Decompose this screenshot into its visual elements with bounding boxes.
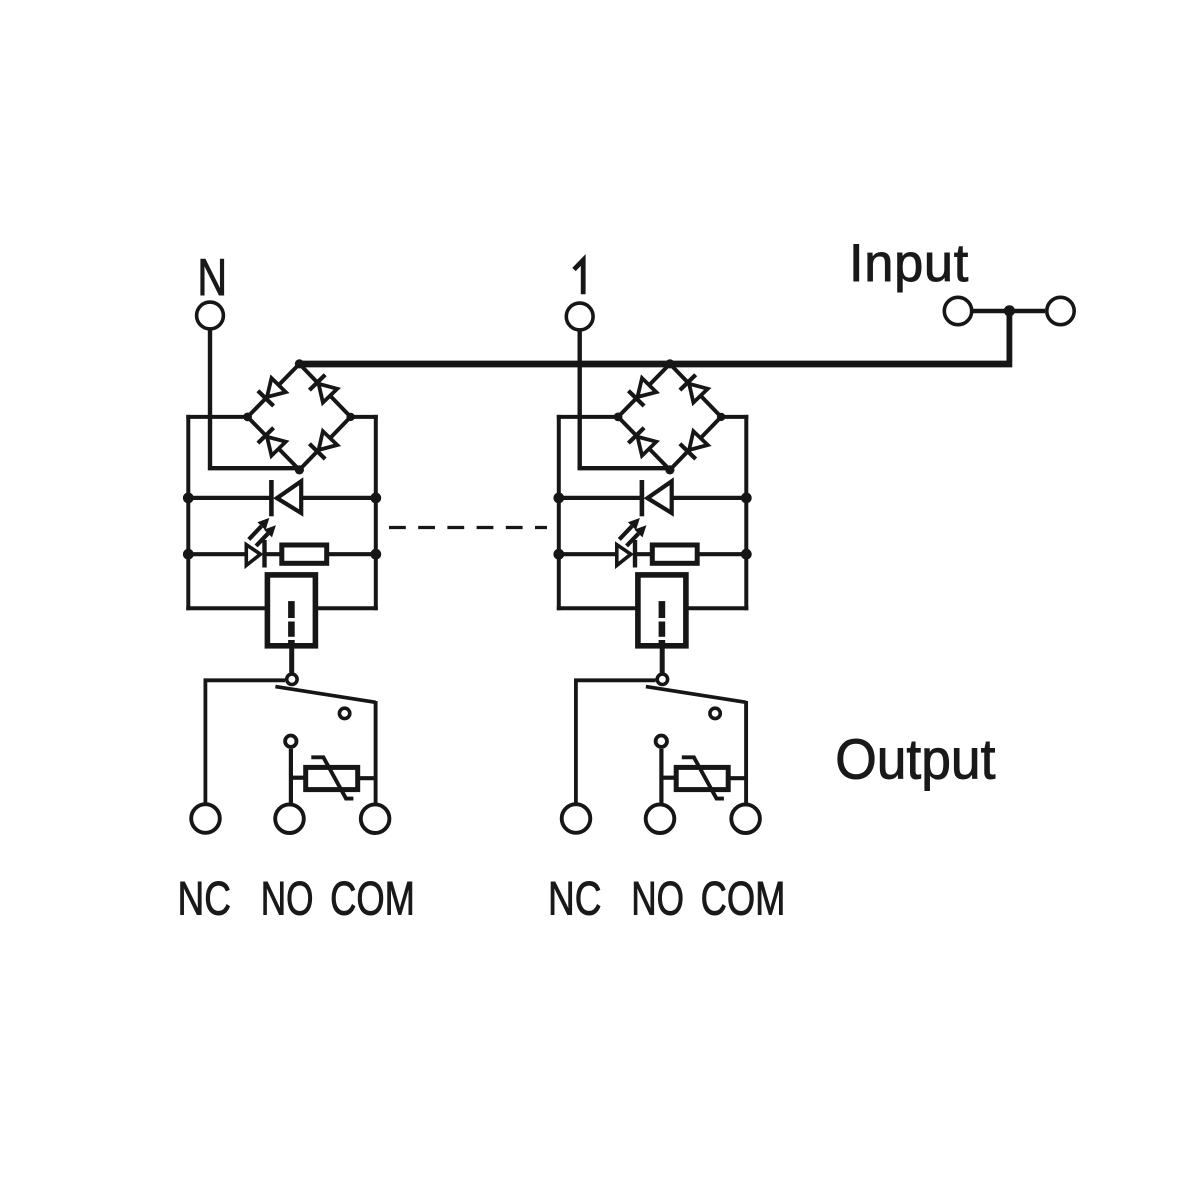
diode D10 freewheeling across coil <box>559 480 747 516</box>
junction input node <box>1004 305 1015 316</box>
diode D6 (bridge B2 top-left) <box>628 378 656 406</box>
label COM for COM2 <box>701 872 786 925</box>
wire from terminal 1 to bridge B2 AC- node <box>580 330 670 468</box>
wire DC bus bottom-left segment <box>186 606 267 610</box>
terminal COM1 (COM) <box>361 804 390 833</box>
bridge rectifier B1 diamond wires <box>248 364 351 470</box>
wire input bus (thick) <box>299 361 1012 368</box>
junction node bridge B1 left vertex (DC+) <box>243 413 252 422</box>
label NO for NO1 <box>261 871 314 924</box>
svg-text:NO: NO <box>631 871 684 924</box>
wire switch S1 NC contact to NC terminal <box>205 680 285 803</box>
wire switch S2 NC contact to NC terminal <box>576 680 656 803</box>
wire DC bus top-right segment <box>351 415 378 419</box>
switch S1 NO branch contact circle <box>285 736 296 747</box>
switch S1 lever (COM moving contact) <box>275 687 375 703</box>
terminal N <box>197 302 224 329</box>
resistor R2 <box>652 545 746 563</box>
label N (neutral input) <box>197 248 227 305</box>
wire switch S1 lever to COM terminal <box>374 701 378 803</box>
junction node bridge B1 top vertex <box>295 359 304 368</box>
svg-text:COM: COM <box>701 872 786 925</box>
wire coil K1 to switch pivot <box>289 646 294 673</box>
wire input feeder drop <box>1007 311 1013 361</box>
terminal NC1 (NC) <box>191 804 220 833</box>
svg-text:COM: COM <box>330 872 415 925</box>
junction node bridge B2 left vertex (DC+) <box>614 413 623 422</box>
svg-text:Output: Output <box>835 727 995 791</box>
junction node LED row right <box>741 549 752 560</box>
junction node bridge B2 top vertex <box>665 359 674 368</box>
wire DC bus right rail <box>744 415 748 610</box>
diode D2 (bridge B1 top-right) <box>309 375 337 403</box>
svg-text:N: N <box>197 248 227 305</box>
varistor RV1 across NO and COM <box>291 757 376 798</box>
junction node bridge B1 right vertex (DC-) <box>346 413 354 421</box>
terminal NO2 (NO) <box>646 804 675 833</box>
junction node diode row left <box>553 493 564 504</box>
label Output <box>835 727 995 791</box>
label NC for NC1 <box>178 872 231 926</box>
terminal NC2 (NC) <box>562 804 591 833</box>
wire DC bus bottom-right segment <box>686 606 748 610</box>
label NC for NC2 <box>548 872 601 926</box>
LED LED1 indicator <box>188 518 281 568</box>
junction node diode row right <box>370 493 381 504</box>
svg-text:Input: Input <box>849 235 969 293</box>
wire DC bus bottom-left segment <box>557 606 638 610</box>
junction node bridge B2 right vertex (DC-) <box>717 413 725 421</box>
junction node diode row right <box>741 493 752 504</box>
wire NO contact to NO terminal <box>289 749 293 804</box>
diode D3 (bridge B1 bottom-left) <box>258 428 286 456</box>
relay coil K1 <box>267 575 315 646</box>
switch S2 lever (COM moving contact) <box>646 687 746 703</box>
svg-text:NC: NC <box>548 872 601 926</box>
resistor R1 <box>282 545 376 563</box>
switch S1 NC fixed contact circle <box>287 674 297 684</box>
label COM for COM1 <box>330 872 415 925</box>
junction node diode row left <box>183 493 194 504</box>
wire from terminal N to bridge B1 AC- node <box>210 330 299 468</box>
terminal Input A <box>944 297 971 324</box>
switch S2 NO branch contact circle <box>656 736 667 747</box>
wire DC bus top-left segment <box>557 415 618 419</box>
dashed link between relay sections <box>389 526 547 529</box>
junction node LED row left <box>553 549 564 560</box>
diode D7 (bridge B2 top-right) <box>680 375 708 403</box>
wire coil K2 to switch pivot <box>660 646 665 673</box>
junction node LED row left <box>183 549 194 560</box>
diode D4 (bridge B1 bottom-right) <box>309 431 337 459</box>
terminal 1 <box>566 303 593 330</box>
wire DC bus top-left segment <box>186 415 247 419</box>
bridge rectifier B2 diamond wires <box>618 364 721 470</box>
wire switch S2 lever to COM terminal <box>744 701 748 803</box>
switch S1 NO fixed contact circle <box>339 708 349 718</box>
wire DC bus bottom-right segment <box>315 606 377 610</box>
label 1 (line input) <box>574 260 583 294</box>
wire input terminals link <box>973 309 1045 313</box>
switch S2 NC fixed contact circle <box>657 674 667 684</box>
diode D5 freewheeling across coil <box>188 480 375 516</box>
terminal NO1 (NO) <box>275 804 304 833</box>
junction node bridge B1 bottom vertex <box>295 465 304 474</box>
wire DC bus right rail <box>374 415 378 610</box>
terminal COM2 (COM) <box>731 804 760 833</box>
junction node LED row right <box>370 549 381 560</box>
svg-text:NC: NC <box>178 872 231 926</box>
LED LED2 indicator <box>559 518 653 568</box>
switch S2 NO fixed contact circle <box>710 708 720 718</box>
varistor RV2 across NO and COM <box>661 757 746 798</box>
wire DC bus left rail <box>557 415 561 610</box>
wire NO contact to NO terminal <box>659 749 663 804</box>
label Input <box>849 235 969 293</box>
junction node bridge B2 bottom vertex <box>665 465 674 474</box>
relay coil K2 <box>638 575 686 646</box>
diode D8 (bridge B2 bottom-left) <box>628 428 656 456</box>
label NO for NO2 <box>631 871 684 924</box>
terminal Input B <box>1047 297 1074 324</box>
wire DC bus top-right segment <box>721 415 748 419</box>
svg-text:NO: NO <box>261 871 314 924</box>
diode D9 (bridge B2 bottom-right) <box>680 431 708 459</box>
wire DC bus left rail <box>186 415 190 610</box>
diode D1 (bridge B1 top-left) <box>258 378 286 406</box>
